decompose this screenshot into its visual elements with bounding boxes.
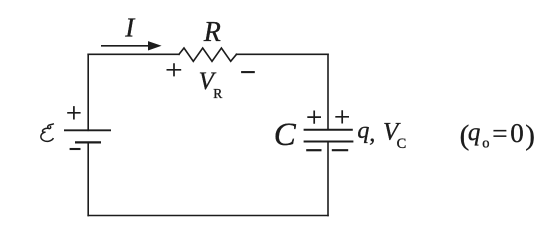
svg-text:I: I [124,13,136,43]
capacitor minus sign left [306,149,321,151]
svg-text:q: q [357,118,369,144]
wire top-left segment (left corner to resistor) [88,53,179,55]
wire top-right segment (resistor to right corner) [237,53,329,55]
wire right upper (top corner down to capacitor top plate) [327,54,329,129]
wire left lower (battery - plate down to bottom corner) [87,142,89,215]
resistor R [179,48,237,61]
battery short plate (-) [75,141,101,143]
EMF symbol script-E [41,124,54,142]
battery minus sign [70,148,81,150]
resistor minus sign [241,71,255,73]
svg-text:C: C [397,136,407,152]
capacitor plus sign right [335,110,349,123]
svg-text:q: q [468,119,481,146]
svg-text:=: = [492,118,507,148]
svg-text:C: C [274,117,297,153]
svg-text:R: R [203,17,221,48]
capacitor bottom plate [304,141,354,143]
capacitor plus sign left [307,111,321,124]
wire bottom [88,215,328,217]
capacitor minus sign right [332,149,348,151]
svg-text:o: o [482,136,489,152]
wire left upper (top corner down to battery + plate) [87,54,89,130]
svg-text:): ) [525,120,535,152]
capacitor top plate [304,129,353,131]
current arrow I [101,41,162,50]
resistor plus sign [167,63,182,76]
wire right lower (capacitor bottom plate down to bottom corner) [327,142,329,216]
svg-text:0: 0 [510,118,524,148]
svg-text:R: R [213,86,222,101]
svg-text:,: , [369,121,375,147]
battery plus sign [67,106,80,119]
battery long plate (+) [64,129,111,131]
